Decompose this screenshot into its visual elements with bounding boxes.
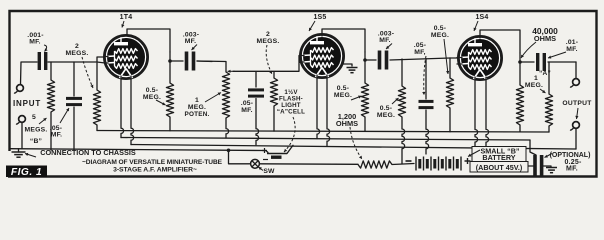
capacitor 0.25-MF C8 — [533, 155, 543, 176]
arrow 0.5-MEG A — [351, 96, 362, 101]
svg-text:MEGS.: MEGS. — [25, 127, 48, 134]
wire V1 filament left — [121, 76, 124, 138]
svg-text:POTEN.: POTEN. — [185, 111, 210, 118]
arrow 5 MEGS — [39, 118, 47, 124]
capacitor .003-MF C3 — [170, 52, 212, 71]
arrow OPTIONAL — [545, 154, 553, 158]
resistor 5 MEGS R1 — [47, 62, 54, 150]
wire grid wire lower stub — [97, 62, 105, 63]
label 1T4 — [120, 14, 133, 21]
wire V2 grid stubs — [299, 56, 304, 63]
svg-text:.01-: .01- — [566, 39, 579, 46]
arrow 0.5-MEG B — [392, 98, 399, 104]
svg-text:MEG.: MEG. — [431, 32, 449, 39]
capacitor .01-MF C7 — [520, 53, 576, 71]
svg-text:5: 5 — [32, 114, 36, 121]
label 1S5 — [313, 14, 326, 21]
label CONNECTION TO CHASSIS — [40, 148, 136, 157]
label 2 MEGS first — [66, 43, 89, 57]
svg-text:1S4: 1S4 — [475, 14, 488, 21]
wire battery plus to capacitor — [529, 165, 534, 167]
wire V3 filament right — [486, 77, 489, 146]
output jack J3 — [570, 79, 579, 87]
svg-text:MF.: MF. — [29, 39, 41, 46]
arrow 2 MEGS first — [82, 57, 93, 88]
label A point — [539, 70, 551, 77]
arrow 40000 OHMS — [521, 42, 536, 58]
wire V2 plate up — [322, 29, 365, 52]
figure label FIG 1 — [6, 166, 47, 179]
title line 1 — [82, 159, 223, 166]
wire V1 grid stubs — [105, 57, 108, 64]
label INPUT — [13, 99, 41, 108]
svg-text:1T4: 1T4 — [120, 14, 133, 21]
capacitor .05-MF C4 — [248, 72, 264, 145]
label .01-MF — [566, 39, 579, 53]
arrow SMALL B BATTERY — [468, 150, 480, 157]
arrow 1 MEG POTEN — [205, 93, 221, 103]
label 1S4 — [475, 14, 488, 21]
label OUTPUT — [562, 100, 592, 107]
wire capacitor to ground right — [544, 166, 552, 167]
label .003-MF second — [378, 31, 395, 45]
wire V2 filament left — [317, 75, 320, 139]
resistor 0.5-MEG R7 grid 3 — [446, 58, 453, 132]
svg-text:.05-: .05- — [241, 100, 254, 107]
switch lamp SW — [251, 159, 260, 168]
label .001-MF — [27, 32, 44, 46]
input jack J2 — [16, 116, 25, 124]
ground right — [546, 168, 557, 173]
resistor 2 MEGS R4 — [270, 72, 277, 132]
svg-text:(OPTIONAL): (OPTIONAL) — [550, 152, 591, 159]
svg-text:“A”CELL: “A”CELL — [277, 109, 305, 116]
box ABOUT 45V — [470, 162, 528, 173]
arrow 1T4 — [121, 21, 124, 28]
label 40000 OHMS — [532, 26, 558, 43]
svg-text:BATTERY: BATTERY — [482, 153, 515, 162]
label .003-MF first — [183, 32, 200, 46]
tube 1S4 V3 — [459, 37, 502, 80]
wire jack2 to chassis — [21, 123, 23, 149]
arrow .001-MF — [44, 45, 48, 52]
arrow 1200 OHMS — [350, 127, 362, 159]
label B battery point — [30, 138, 42, 145]
arrow 1 MEG right — [540, 89, 546, 93]
wire chassis bus — [10, 149, 266, 151]
label SW — [263, 168, 275, 175]
input jack J1 — [14, 85, 23, 93]
svg-text:CONNECTION TO CHASSIS: CONNECTION TO CHASSIS — [40, 148, 136, 157]
arrow 2 MEGS second — [266, 45, 272, 74]
resistor 0.5-MEG R3 plate load — [166, 52, 173, 131]
svg-text:SW: SW — [263, 168, 275, 175]
wire lamp to resistor — [260, 163, 359, 166]
arrow A cell — [284, 117, 295, 152]
arrow SW — [259, 167, 264, 171]
title line 2 — [113, 167, 197, 174]
svg-text:.05-: .05- — [414, 42, 427, 49]
arrow .01-MF — [548, 52, 566, 59]
wire chassis to lamp — [229, 150, 251, 164]
svg-text:MEG.: MEG. — [143, 94, 161, 101]
svg-text:MF.: MF. — [566, 166, 578, 173]
wire B-plus bus (top bus A) — [97, 131, 549, 133]
svg-text:MEGS.: MEGS. — [257, 38, 280, 45]
resistor 1 MEG R9 — [545, 62, 552, 132]
svg-text:MF.: MF. — [51, 132, 63, 139]
wire bus C — [131, 145, 576, 150]
arrow 0.5-MEG C — [444, 39, 449, 74]
label 2 MEGS second — [257, 31, 280, 45]
border frame — [8, 11, 597, 177]
svg-text:MEG.: MEG. — [525, 82, 543, 89]
wire output jack bottom — [575, 129, 577, 150]
svg-text:INPUT: INPUT — [13, 99, 41, 108]
svg-text:0.5-: 0.5- — [146, 87, 159, 94]
battery B 45V — [415, 157, 461, 171]
svg-text:0.5-: 0.5- — [434, 25, 447, 32]
ground at V2 — [347, 68, 358, 73]
svg-text:MEGS.: MEGS. — [66, 50, 89, 57]
svg-text:~DIAGRAM OF VERSATILE MINIATUR: ~DIAGRAM OF VERSATILE MINIATURE-TUBE — [82, 159, 223, 166]
wire V3 filament left — [475, 77, 478, 147]
svg-text:MF.: MF. — [185, 38, 197, 45]
arrow 1S4 — [474, 21, 478, 31]
svg-text:2: 2 — [75, 43, 79, 50]
svg-text:OUTPUT: OUTPUT — [562, 100, 592, 107]
svg-text:1: 1 — [195, 97, 199, 104]
wire V2 filament right — [327, 75, 330, 146]
junction V2 plate node — [363, 58, 367, 62]
battery A cell — [262, 145, 293, 159]
capacitor .05-MF C6 — [419, 59, 434, 154]
ground chassis left — [12, 149, 26, 158]
label 5 MEGS — [25, 114, 48, 134]
label 0.5-MEG B — [377, 105, 395, 119]
wire V2 to ground — [343, 64, 352, 66]
svg-text:MF.: MF. — [379, 37, 391, 44]
label .05-MF third — [414, 42, 427, 56]
label 1 MEG POTEN — [185, 97, 210, 118]
label 1 MEG right — [525, 75, 543, 89]
arrow .05-MF first — [60, 108, 69, 123]
wire bus B — [121, 138, 530, 141]
capacitor .05-MF C2 bypass — [66, 62, 82, 150]
label 1200 OHMS — [336, 112, 358, 128]
svg-text:MF.: MF. — [566, 46, 578, 53]
wire output jack top — [575, 62, 577, 79]
junction chassis to switch — [227, 149, 231, 153]
svg-text:MEG.: MEG. — [334, 92, 352, 99]
label OPTIONAL 0.25-MF — [550, 152, 591, 173]
resistor 0.5-MEG R5 plate load 2 — [361, 52, 368, 131]
svg-text:2: 2 — [266, 31, 270, 38]
wire C1 to grid V1 — [48, 57, 105, 62]
wire pot wiper to V2 grid — [233, 62, 303, 71]
svg-text:OHMS: OHMS — [534, 34, 556, 43]
wire resistor to battery minus — [392, 164, 414, 165]
label plus B battery — [465, 158, 471, 164]
svg-text:0.5-: 0.5- — [380, 105, 393, 112]
junction V1 plate node — [168, 59, 172, 63]
wire jack1 to C1 — [21, 62, 38, 85]
arrow .003-MF first — [192, 45, 198, 51]
resistor 0.5-MEG R6 — [398, 59, 405, 164]
arrow .003-MF second — [386, 44, 392, 50]
svg-text:0.5-: 0.5- — [337, 85, 350, 92]
svg-text:(ABOUT 45V.): (ABOUT 45V.) — [476, 163, 523, 172]
wire V1 filament right — [131, 76, 134, 145]
label 1.5V flashlight A cell — [277, 89, 305, 116]
svg-text:MF.: MF. — [241, 107, 253, 114]
arrow 1S5 — [309, 21, 315, 31]
wire V3 plate up — [480, 30, 520, 53]
svg-text:MEG.: MEG. — [377, 112, 395, 119]
arrow .05-MF third — [422, 56, 426, 95]
tube 1S5 V2 — [301, 35, 344, 78]
tube 1T4 V1 — [105, 36, 148, 79]
svg-text:1S5: 1S5 — [313, 14, 326, 21]
wire V3 grid stubs — [450, 58, 462, 65]
wire busB corner to capacitor — [530, 140, 536, 155]
box SMALL B BATTERY — [472, 147, 526, 163]
svg-text:3-STAGE A.F. AMPLIFIER~: 3-STAGE A.F. AMPLIFIER~ — [113, 167, 197, 174]
junction V3 plate node — [518, 60, 522, 64]
svg-text:“B”: “B” — [30, 138, 42, 145]
potentiometer wiper arrow — [228, 70, 236, 73]
resistor 2 MEGS R2 — [93, 63, 100, 131]
wire V1 plate to junction — [127, 29, 170, 52]
label minus B battery — [406, 160, 412, 162]
arrow 0.5-MEG first — [156, 100, 166, 105]
svg-text:1: 1 — [534, 75, 538, 82]
arrow chassis — [25, 153, 36, 157]
resistor 1200 OHMS R10 — [358, 161, 392, 168]
arrow OUTPUT — [575, 108, 578, 119]
capacitor .003-MF C5 — [365, 51, 450, 70]
resistor 40000 OHMS R8 — [516, 53, 523, 132]
svg-text:MEG.: MEG. — [188, 104, 206, 111]
label 0.5-MEG A — [334, 85, 352, 99]
capacitor .001-MF C1 — [38, 52, 48, 70]
svg-text:MF,: MF, — [414, 49, 426, 56]
output jack J4 — [570, 122, 579, 130]
label 0.5-MEG C — [431, 25, 449, 39]
svg-text:FIG. 1: FIG. 1 — [11, 167, 42, 178]
svg-text:OHMS: OHMS — [336, 119, 358, 128]
label .05-MF second — [241, 100, 254, 114]
potentiometer 1 MEG — [197, 61, 230, 138]
label 0.5-MEG first — [143, 87, 161, 101]
label .05-MF first — [50, 125, 63, 139]
